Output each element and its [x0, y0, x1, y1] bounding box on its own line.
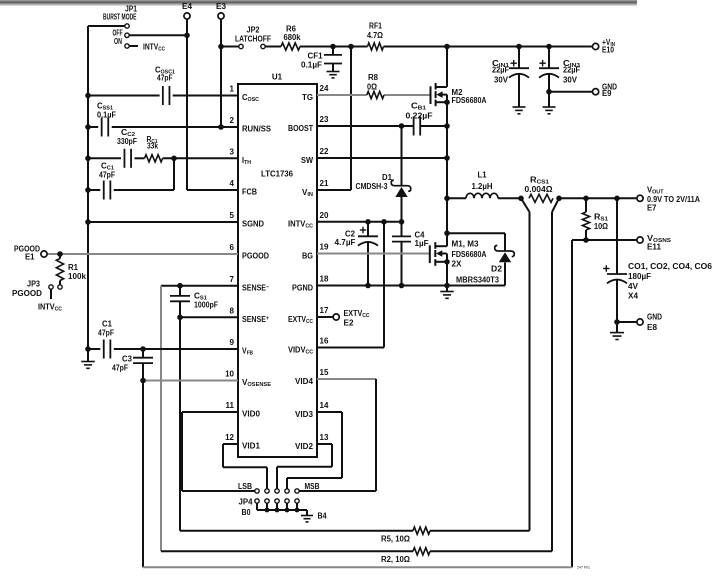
svg-text:11: 11: [226, 401, 235, 410]
wire VID3 route: [287, 412, 342, 489]
capacitor CIN1 22uF: [492, 47, 529, 107]
svg-text:4.7µF: 4.7µF: [335, 238, 356, 247]
ground at M1 source: [440, 286, 454, 299]
svg-text:U1: U1: [272, 73, 283, 82]
svg-text:9: 9: [230, 338, 235, 347]
svg-text:VID2: VID2: [295, 442, 314, 451]
wire E3 down to RUN/SS pin 2: [220, 19, 222, 127]
svg-text:D2: D2: [491, 265, 503, 274]
node M1 drain tap: [444, 230, 450, 236]
svg-text:R1: R1: [68, 263, 79, 272]
terminal E3: [216, 2, 227, 19]
capacitor C2 4.7uF: [335, 222, 379, 286]
node VOSENSE junction: [140, 378, 146, 384]
svg-text:21: 21: [320, 179, 329, 188]
svg-text:15: 15: [320, 368, 329, 377]
wire PGND pin 18 row: [317, 285, 447, 287]
svg-text:VID4: VID4: [295, 377, 314, 386]
terminal E7 VOUT: [637, 186, 700, 213]
svg-text:GND: GND: [647, 313, 662, 322]
svg-text:13: 13: [320, 433, 329, 442]
wire SW node vertical: [446, 95, 448, 247]
capacitor CC1 47pF: [99, 162, 115, 200]
label INTVCC at JP1: [129, 43, 165, 53]
wire SENSE- vertical run: [160, 286, 162, 552]
wire VIDVCC vertical: [317, 222, 384, 348]
node CB1/SW junction: [444, 123, 450, 129]
svg-text:33k: 33k: [147, 142, 158, 151]
node CIN1 tap: [516, 44, 522, 50]
wire left ground rail: [88, 26, 125, 349]
capacitor C3 47pF: [112, 349, 153, 381]
svg-text:JP4: JP4: [239, 498, 254, 507]
node CO bottom: [614, 319, 620, 325]
resistor RS1 10ohm: [582, 198, 608, 240]
node left rail pin1: [85, 93, 91, 99]
wire kelvin right: [552, 198, 559, 551]
wire top rail: [300, 46, 592, 48]
svg-text:22: 22: [320, 147, 329, 156]
label LSB: [238, 482, 252, 491]
svg-text:R8: R8: [368, 73, 379, 82]
svg-text:MBRS340T3: MBRS340T3: [456, 275, 500, 284]
wire VFB pin 9 row: [88, 348, 238, 350]
svg-text:0Ω: 0Ω: [367, 83, 378, 92]
svg-text:FCB: FCB: [242, 188, 257, 197]
resistor R5 10ohm: [381, 527, 430, 543]
svg-text:MSB: MSB: [305, 482, 320, 491]
svg-text:E9: E9: [602, 89, 612, 98]
svg-text:SENSE+: SENSE+: [242, 315, 269, 324]
wire SGND pin 5 row: [88, 221, 238, 223]
svg-text:C3: C3: [122, 355, 133, 364]
label INTVCC at JP3: [38, 303, 62, 313]
connector JP4 VID jumpers: [255, 489, 307, 513]
svg-text:PGND: PGND: [292, 283, 313, 292]
svg-text:JP3: JP3: [27, 280, 41, 289]
svg-text:PGOOD: PGOOD: [12, 289, 42, 298]
U1 pin names and numbers: [225, 84, 329, 451]
svg-text:B4: B4: [318, 512, 327, 521]
ground at JP4: [301, 510, 313, 522]
svg-text:23: 23: [320, 115, 329, 124]
svg-text:BOOST: BOOST: [288, 124, 313, 133]
svg-text:PGOOD: PGOOD: [242, 252, 269, 261]
svg-text:17: 17: [320, 306, 329, 315]
svg-text:SGND: SGND: [242, 220, 264, 229]
wire VID4 route: [299, 379, 376, 491]
wire VIN feed down: [317, 47, 351, 191]
svg-text:BURST MODE: BURST MODE: [103, 13, 137, 22]
svg-text:VOUT: VOUT: [647, 186, 664, 196]
node junction E4/OFF: [184, 33, 190, 39]
wire E3 to JP2: [221, 46, 239, 48]
resistor R2 10ohm: [381, 548, 430, 564]
wire R5 row: [180, 530, 530, 532]
ground at CO: [610, 322, 624, 340]
svg-text:VID3: VID3: [295, 410, 314, 419]
resistor RC1 33k: [145, 135, 163, 162]
capacitor CS1 1000pF: [170, 286, 218, 318]
node RC1/pin3 junction: [171, 156, 177, 162]
ground at CIN3: [543, 107, 556, 114]
node left rail pin2: [85, 124, 91, 130]
node left rail pin3: [85, 156, 91, 162]
svg-text:VID1: VID1: [242, 442, 261, 451]
capacitor CO1 CO2 CO4 CO6 180uF: [603, 198, 712, 322]
wire JP1 OFF to E4: [129, 34, 187, 36]
node left rail pin9: [85, 346, 91, 352]
svg-text:FDS6680A: FDS6680A: [452, 96, 487, 105]
svg-text:E8: E8: [647, 323, 658, 332]
svg-text:22µF: 22µF: [563, 66, 580, 75]
node M1 source: [444, 259, 450, 265]
svg-text:20: 20: [320, 211, 329, 220]
diode D1 CMDSH-3: [356, 126, 411, 222]
svg-text:R2, 10Ω: R2, 10Ω: [381, 555, 411, 564]
wire COSC pin 1 row: [88, 95, 238, 97]
wire SENSE+ vertical run: [179, 317, 181, 530]
ground at CF1: [327, 64, 340, 78]
svg-text:E2: E2: [344, 318, 355, 327]
wire BOOST pin 23 row: [317, 125, 447, 127]
node C2 top: [365, 219, 371, 225]
wire VOUT row: [559, 197, 637, 199]
jumper JP3 PGOOD: [12, 280, 53, 300]
wire M1 source down: [446, 254, 448, 286]
node RS1 top: [583, 196, 589, 202]
jumper JP1 BURST MODE: [103, 5, 137, 49]
svg-text:7: 7: [230, 275, 235, 284]
jumper JP2 LATCHOFF: [235, 26, 271, 49]
svg-text:SENSE–: SENSE–: [242, 283, 270, 292]
node RCS1 left kelvin: [518, 196, 524, 202]
terminal E1 PGOOD: [14, 245, 47, 262]
svg-text:680k: 680k: [284, 33, 302, 42]
svg-text:1µF: 1µF: [415, 239, 429, 248]
svg-text:ON: ON: [114, 37, 122, 46]
svg-text:8: 8: [230, 307, 235, 316]
resistor R8 0ohm: [367, 73, 384, 99]
svg-text:LSB: LSB: [238, 482, 252, 491]
ground at CIN1: [513, 107, 526, 114]
diode D2 MBRS340T3: [447, 233, 514, 285]
node CIN3 tap: [546, 44, 552, 50]
svg-text:18: 18: [320, 275, 329, 284]
svg-text:30V: 30V: [563, 76, 578, 85]
wire RUN/SS pin 2 row: [88, 126, 238, 128]
svg-text:330pF: 330pF: [117, 137, 137, 146]
svg-text:D1: D1: [382, 173, 393, 182]
wire VOSENSE pin 10 row: [143, 380, 238, 382]
wire SENSE+ pin 8: [180, 316, 238, 318]
node CS1 top: [177, 283, 183, 289]
svg-text:TG: TG: [302, 93, 313, 102]
wire BG pin 19 row: [317, 253, 429, 255]
node RS1 bottom: [583, 237, 589, 243]
svg-text:FDS6680A: FDS6680A: [452, 250, 487, 259]
capacitor CB1 0.22uF: [406, 102, 433, 136]
node L1 corner tap: [444, 196, 450, 202]
svg-text:EXTVCC: EXTVCC: [344, 309, 370, 319]
svg-text:CMDSH-3: CMDSH-3: [356, 182, 388, 191]
wire R2 row: [161, 550, 552, 552]
svg-text:1000pF: 1000pF: [194, 301, 218, 310]
node junction E3/latchoff: [218, 44, 224, 50]
label figure number: [577, 565, 591, 570]
svg-text:22µF: 22µF: [492, 66, 509, 75]
node left rail CC1: [85, 187, 91, 193]
wire VOSENSE vertical run: [142, 381, 144, 568]
svg-text:100k: 100k: [68, 272, 87, 281]
wire INTVCC pin 20 row: [317, 221, 402, 223]
svg-text:2: 2: [230, 116, 235, 125]
svg-text:CB1: CB1: [411, 102, 426, 112]
svg-text:R5, 10Ω: R5, 10Ω: [381, 535, 411, 544]
capacitor CF1 0.1uF: [301, 47, 342, 70]
wire E4 down to FCB pin 4: [186, 19, 188, 190]
svg-text:1.2µH: 1.2µH: [472, 182, 493, 191]
svg-text:C1: C1: [102, 320, 113, 329]
svg-text:0.1µF: 0.1µF: [301, 61, 322, 70]
svg-text:47pF: 47pF: [112, 364, 128, 373]
label B4: [318, 512, 327, 521]
svg-text:VID0: VID0: [242, 410, 261, 419]
ground at bottom of left rail: [81, 349, 95, 368]
node R1 top: [57, 251, 63, 257]
transistor M1 M3 FDS6680A: [430, 240, 487, 269]
svg-text:10: 10: [225, 370, 234, 379]
node C4 bottom: [399, 283, 405, 289]
node VIN feed tap: [348, 44, 354, 50]
wire ITH pin 3 row: [88, 157, 238, 159]
svg-text:INTVCC: INTVCC: [38, 303, 62, 313]
terminal E10 +VIN: [593, 38, 616, 55]
wire TG pin 24 row: [317, 94, 430, 96]
svg-text:E11: E11: [647, 243, 662, 252]
svg-text:0.004Ω: 0.004Ω: [525, 185, 554, 194]
svg-text:E3: E3: [216, 2, 227, 11]
svg-text:180µF: 180µF: [628, 272, 651, 281]
svg-text:JP2: JP2: [247, 26, 261, 35]
wire M2 drain to rail: [446, 47, 448, 88]
svg-text:X4: X4: [628, 292, 639, 301]
svg-text:2X: 2X: [452, 260, 463, 269]
label JP4: [239, 498, 254, 507]
svg-text:4: 4: [230, 179, 235, 188]
svg-text:47pF: 47pF: [157, 74, 173, 83]
node PGND/M1 junction: [444, 283, 450, 289]
wire CC1 branch: [88, 158, 174, 190]
terminal E9 GND: [593, 82, 618, 98]
svg-text:BG: BG: [302, 251, 313, 260]
capacitor CC2 330pF: [117, 128, 137, 168]
node RCS1 right kelvin: [556, 196, 562, 202]
capacitor CSS1 0.1uF: [97, 102, 116, 137]
node D1/C4 top: [399, 219, 405, 225]
node CO tap: [614, 196, 620, 202]
capacitor C4 1uF: [392, 222, 429, 286]
svg-text:4.7Ω: 4.7Ω: [367, 31, 384, 40]
node C2 bottom: [365, 283, 371, 289]
wire bottom VOSENSE row: [143, 566, 572, 568]
svg-text:B0: B0: [242, 508, 251, 517]
wire VID0 route: [182, 412, 255, 491]
transistor M2 FDS6680A: [431, 83, 487, 106]
svg-text:10Ω: 10Ω: [594, 222, 609, 231]
wire EXTVCC pin 17: [317, 316, 333, 318]
wire SW pin 22 row: [317, 157, 447, 159]
resistor R1 100k: [56, 254, 86, 285]
svg-text:14: 14: [320, 401, 329, 410]
terminal E2 EXTVCC: [333, 309, 369, 328]
svg-text:47pF: 47pF: [99, 171, 115, 180]
svg-text:4V: 4V: [628, 282, 639, 291]
node SW row junction: [444, 155, 450, 161]
wire FCB pin 4 row: [187, 189, 238, 191]
wire M1 drain feed: [446, 233, 448, 246]
resistor R6 680k: [265, 25, 301, 51]
terminal E11 VOSNS: [637, 234, 671, 252]
label MSB: [305, 482, 320, 491]
svg-text:19: 19: [320, 243, 329, 252]
capacitor CIN3 22uF: [539, 47, 580, 107]
svg-text:CF1: CF1: [308, 52, 324, 61]
svg-text:3: 3: [230, 148, 235, 157]
resistor RF1 4.7ohm: [367, 22, 384, 51]
wire PGOOD pin 6 row: [47, 253, 238, 255]
label B0: [242, 508, 251, 517]
node E9 tap: [546, 89, 552, 95]
wire VID1 route: [223, 444, 267, 489]
svg-text:16: 16: [320, 337, 329, 346]
capacitor COSC1 47pF: [155, 66, 175, 106]
svg-text:E1: E1: [25, 253, 35, 262]
svg-text:47pF: 47pF: [98, 329, 114, 338]
svg-text:SW: SW: [301, 156, 313, 165]
wire to E8: [617, 321, 637, 323]
node M2 drain rail tap: [444, 44, 450, 50]
terminal E4: [182, 2, 193, 19]
svg-text:5: 5: [230, 211, 235, 220]
svg-text:1: 1: [230, 85, 235, 94]
svg-text:E4: E4: [182, 2, 193, 11]
capacitor C1 47pF: [98, 320, 114, 359]
svg-text:L1: L1: [478, 171, 488, 180]
node junction E3/RUN-SS: [218, 124, 224, 130]
node CF1 tap: [330, 44, 336, 50]
svg-text:RS1: RS1: [594, 213, 608, 223]
svg-text:LTC1736: LTC1736: [261, 170, 294, 179]
svg-text:RCS1: RCS1: [530, 176, 549, 186]
svg-text:30V: 30V: [494, 76, 509, 85]
svg-text:24: 24: [320, 84, 329, 93]
node C3 top: [140, 346, 146, 352]
wire to E9: [549, 91, 592, 93]
wire VID2 route: [277, 444, 332, 489]
node left rail SGND: [85, 219, 91, 225]
node CS1 bottom: [177, 315, 183, 321]
wire VOSNS vertical: [571, 240, 573, 567]
svg-text:RUN/SS: RUN/SS: [242, 125, 272, 134]
svg-text:INTVCC: INTVCC: [143, 43, 165, 53]
node VIDVCC tap: [381, 219, 387, 225]
terminal E8 GND: [637, 313, 662, 333]
svg-text:RF1: RF1: [369, 22, 382, 31]
wire SENSE- pin 7: [161, 285, 238, 287]
svg-text:CO1, CO2, CO4, CO6: CO1, CO2, CO4, CO6: [628, 262, 713, 271]
svg-text:0.1µF: 0.1µF: [97, 111, 116, 120]
svg-text:E10: E10: [602, 46, 614, 55]
wire VOSNS row: [572, 239, 637, 241]
wire kelvin left: [521, 198, 530, 530]
node D1 boost tap: [399, 123, 405, 129]
IC U1 LTC1736 controller body: [238, 73, 317, 458]
svg-text:247 F01: 247 F01: [577, 565, 591, 570]
node M2 source: [444, 99, 450, 105]
svg-text:6: 6: [230, 243, 235, 252]
jumper R1 bottom pin: [58, 285, 62, 289]
svg-text:E7: E7: [647, 203, 657, 212]
page top edge artifact: [0, 0, 637, 7]
svg-text:12: 12: [225, 433, 234, 442]
svg-text:0.22µF: 0.22µF: [406, 112, 433, 121]
resistor RCS1 0.004ohm: [525, 176, 554, 203]
svg-text:M1, M3: M1, M3: [452, 240, 480, 249]
inductor L1 1.2uH: [447, 171, 521, 199]
svg-text:LATCHOFF: LATCHOFF: [235, 35, 271, 44]
